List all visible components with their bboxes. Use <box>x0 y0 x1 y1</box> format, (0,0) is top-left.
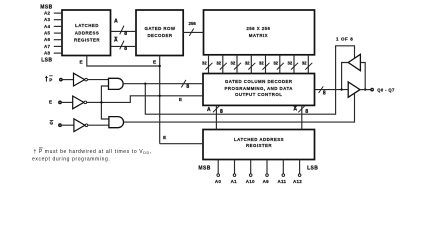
latched address register (top) box <box>62 10 111 56</box>
svg-text:E: E <box>153 60 156 65</box>
slash 32 #3 <box>234 63 241 70</box>
node E junction mid <box>159 95 161 97</box>
svg-text:E: E <box>163 135 166 140</box>
slash 32 #5 <box>263 63 270 70</box>
bottom register output pins <box>218 160 299 174</box>
svg-text:A5: A5 <box>44 31 50 36</box>
bus 32 #7 <box>293 55 295 74</box>
svg-text:REGISTER: REGISTER <box>74 37 100 42</box>
output wire to pad <box>360 89 371 91</box>
wire E to column decoder <box>101 96 203 103</box>
svg-text:† P must be hardwired at all t: † P must be hardwired at all times to VD… <box>34 149 152 155</box>
wire A: P-and output to input-buffer enable <box>145 46 354 114</box>
svg-text:A: A <box>114 38 118 44</box>
bus 32 #8 <box>307 55 309 74</box>
pin A10 wire <box>250 160 252 174</box>
svg-text:GATED COLUMN DECODER: GATED COLUMN DECODER <box>225 79 293 84</box>
slash 32 #8 <box>305 63 312 70</box>
svg-text:8: 8 <box>323 90 326 96</box>
bus 32 #4 <box>250 55 252 74</box>
terminal Q <box>371 88 373 90</box>
bus 32 #3 <box>236 55 238 74</box>
svg-text:8: 8 <box>124 31 127 37</box>
inverter E <box>73 96 84 109</box>
terminal E <box>59 101 61 103</box>
bus 256 row decoder to matrix <box>183 31 203 33</box>
bus 32 #2 <box>222 55 224 74</box>
svg-text:32: 32 <box>231 60 236 65</box>
svg-text:MSB: MSB <box>198 165 210 171</box>
terminal G <box>59 124 61 126</box>
svg-text:LATCHED: LATCHED <box>75 23 99 28</box>
svg-text:32: 32 <box>245 60 250 65</box>
terminal A12 <box>298 174 301 177</box>
svg-text:32: 32 <box>302 60 307 65</box>
pin A12 wire <box>299 160 301 174</box>
svg-text:32: 32 <box>202 60 207 65</box>
pin A3 wire <box>54 19 62 21</box>
and gate bottom (E,G) <box>109 117 124 128</box>
svg-text:LATCHED ADDRESS: LATCHED ADDRESS <box>234 137 284 142</box>
svg-text:DECODER: DECODER <box>147 33 172 38</box>
inverter G <box>74 119 85 132</box>
svg-text:A8: A8 <box>44 51 50 56</box>
footnote <box>39 147 43 149</box>
svg-text:A3: A3 <box>44 17 50 22</box>
svg-text:MATRIX: MATRIX <box>249 33 268 38</box>
svg-text:A: A <box>114 19 118 25</box>
gated column decoder box <box>203 74 315 106</box>
svg-text:32: 32 <box>273 60 278 65</box>
svg-text:32: 32 <box>259 60 264 65</box>
svg-text:GATED ROW: GATED ROW <box>144 26 175 31</box>
input buffer (left-pointing triangle) <box>348 54 360 70</box>
svg-text:256: 256 <box>189 21 197 26</box>
A/8 vertical bottom register to column decoder <box>215 105 217 129</box>
svg-text:E: E <box>49 99 52 104</box>
input buffer input wire <box>360 63 365 90</box>
svg-text:OUTPUT CONTROL: OUTPUT CONTROL <box>235 92 282 97</box>
svg-text:A10: A10 <box>246 179 255 184</box>
terminal P <box>60 78 62 80</box>
slash 32 #2 <box>220 63 227 70</box>
terminal A1 <box>233 174 236 177</box>
svg-text:A9: A9 <box>263 179 269 184</box>
bus 32 #5 <box>265 55 267 74</box>
svg-text:A0: A0 <box>215 179 221 184</box>
svg-text:256 X 256: 256 X 256 <box>246 26 270 31</box>
terminal A10 <box>249 174 252 177</box>
slash 8 on P data bus <box>181 80 186 88</box>
svg-text:8: 8 <box>220 109 223 115</box>
svg-text:REGISTER: REGISTER <box>246 143 272 148</box>
svg-text:A7: A7 <box>44 44 50 49</box>
slash 32 #4 <box>248 63 255 70</box>
node E split <box>100 101 102 103</box>
svg-text:8: 8 <box>186 84 189 90</box>
svg-text:A2: A2 <box>44 11 50 16</box>
slash 32 #7 <box>291 63 298 70</box>
E inverter split vertical <box>101 86 109 119</box>
node bus join <box>340 88 342 90</box>
pin A4 wire <box>54 25 62 27</box>
pin A5 wire <box>54 32 62 34</box>
svg-text:P: P <box>49 77 52 82</box>
wire E vertical row decoder to bottom register <box>159 56 161 144</box>
svg-text:E: E <box>79 60 82 65</box>
wire E from top register <box>87 56 160 67</box>
pin A2 wire <box>54 12 62 14</box>
terminal A11 <box>282 174 285 177</box>
svg-text:32: 32 <box>216 60 221 65</box>
svg-text:E: E <box>179 97 182 102</box>
svg-text:LSB: LSB <box>307 165 318 171</box>
svg-text:A1: A1 <box>231 179 237 184</box>
svg-text:A: A <box>293 107 297 113</box>
svg-text:A4: A4 <box>44 24 50 29</box>
inverter P <box>74 73 85 86</box>
svg-text:8: 8 <box>305 109 308 115</box>
output buffer (right-pointing triangle) <box>348 82 360 97</box>
latched address register (bottom) box <box>203 130 315 160</box>
pin A8 wire <box>54 52 62 54</box>
svg-text:A11: A11 <box>278 179 287 184</box>
svg-text:except during programming.: except during programming. <box>32 157 110 163</box>
slash 32 #6 <box>277 63 284 70</box>
pin A11 wire <box>282 160 284 174</box>
gated row decoder box <box>136 10 183 56</box>
bus 32 #6 <box>279 55 281 74</box>
bus A/8 register to row decoder <box>111 30 137 32</box>
terminal A0 <box>217 174 220 177</box>
data bus /8 column decoder to output buffer <box>315 89 348 91</box>
svg-text:1 OF 8: 1 OF 8 <box>336 37 353 42</box>
pin A1 wire <box>234 160 236 174</box>
pin A7 wire <box>54 45 62 47</box>
E net <box>87 56 203 144</box>
wire B: G-and output to output-buffer enable <box>124 93 355 122</box>
address input pins A2-A8 <box>54 13 62 53</box>
terminal A9 <box>266 174 269 177</box>
pin A6 wire <box>54 39 62 41</box>
svg-text:G: G <box>50 121 54 126</box>
Abar/8 vertical bottom register to column decoder <box>301 105 303 129</box>
svg-text:PROGRAMMING, AND DATA: PROGRAMMING, AND DATA <box>224 86 293 91</box>
svg-text:ADDRESS: ADDRESS <box>75 30 100 35</box>
wire E to bottom register <box>160 143 203 145</box>
eight 32-bit buses matrix to column decoder <box>209 55 309 74</box>
wire top AND output to column decoder <box>123 83 203 85</box>
node wire A tap <box>144 83 146 85</box>
svg-text:LSB: LSB <box>41 57 52 63</box>
svg-text:A6: A6 <box>44 37 50 42</box>
and gate top (P,E) <box>109 78 124 89</box>
256 x 256 matrix box <box>204 10 315 55</box>
svg-text:8: 8 <box>124 46 127 52</box>
pin A0 wire <box>217 160 219 174</box>
svg-text:A12: A12 <box>293 179 302 184</box>
svg-text:Q0 - Q7: Q0 - Q7 <box>377 87 395 92</box>
svg-text:32: 32 <box>288 60 293 65</box>
slash 32 #1 <box>206 63 213 70</box>
node E junction top <box>159 65 161 67</box>
node pad join <box>364 88 366 90</box>
pin A9 wire <box>266 160 268 174</box>
bus 32 #1 <box>208 55 210 74</box>
input P <box>45 76 47 82</box>
input buffer output wire <box>342 63 349 90</box>
bus Abar/8 register to row decoder <box>111 45 137 47</box>
svg-text:A: A <box>207 107 211 113</box>
